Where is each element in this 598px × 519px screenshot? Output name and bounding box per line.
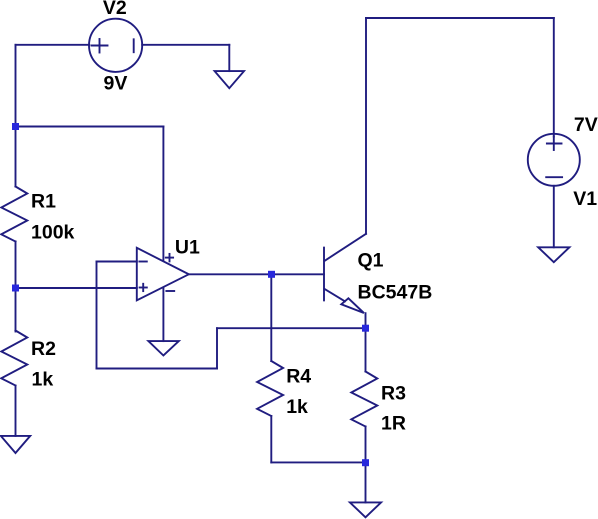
- wire V1 to ground: [553, 186, 555, 248]
- wire R4 top: [270, 274, 272, 361]
- node D junction (emitter): [362, 325, 369, 332]
- wire top rail: [366, 17, 554, 19]
- wire R3 top: [365, 328, 367, 371]
- op-amp U1: [137, 248, 189, 300]
- svg-text:V2: V2: [103, 0, 127, 19]
- wire V1 top lead: [553, 18, 555, 137]
- wire V2 to ground: [228, 45, 230, 71]
- ground (R2): [1, 436, 30, 453]
- node E junction (R3/R4 bottom): [362, 459, 369, 466]
- svg-text:R4: R4: [286, 366, 311, 388]
- wire R1 to node B: [15, 241, 17, 331]
- svg-text:V1: V1: [573, 188, 597, 210]
- svg-text:1k: 1k: [286, 396, 308, 418]
- svg-text:1R: 1R: [381, 412, 406, 434]
- svg-text:U1: U1: [175, 237, 200, 259]
- resistor R2: [1, 331, 27, 386]
- wire node B to opamp plus input: [16, 287, 137, 289]
- wire R3 bottom: [365, 426, 367, 502]
- wire feedback bottom horizontal: [97, 368, 218, 370]
- resistor R3: [351, 372, 377, 427]
- wire R4 bottom: [270, 416, 272, 462]
- wire feedback right vertical: [216, 328, 218, 368]
- wire feedback left vertical: [96, 262, 98, 369]
- wire node A to opamp V+ horizontal: [16, 126, 164, 128]
- wire opamp output to Q1 base: [189, 273, 324, 275]
- svg-text:7V: 7V: [574, 114, 598, 136]
- ground (U1): [148, 341, 178, 355]
- resistor R4: [257, 361, 283, 416]
- wire V2 right lead: [142, 44, 229, 46]
- ground (V1): [538, 247, 569, 262]
- ground (bottom): [350, 502, 381, 517]
- voltage source V1: [528, 134, 580, 186]
- svg-text:9V: 9V: [104, 73, 128, 95]
- wire opamp minus input: [97, 261, 137, 263]
- wire collector vertical: [365, 18, 367, 234]
- wire R4 to node E: [271, 461, 365, 463]
- svg-text:BC547B: BC547B: [358, 282, 433, 304]
- voltage source V2: [89, 19, 142, 72]
- wire R2 to ground: [15, 386, 17, 436]
- wire emitter bend: [365, 313, 367, 328]
- svg-text:100k: 100k: [31, 221, 75, 243]
- wire V2 left lead: [16, 44, 90, 46]
- wire left rail top: [15, 45, 17, 187]
- resistor R1: [1, 187, 27, 242]
- svg-text:1k: 1k: [32, 369, 54, 391]
- ground (V2): [215, 71, 244, 88]
- wire opamp V- vertical: [162, 288, 164, 341]
- transistor Q1: [323, 248, 325, 301]
- svg-text:R3: R3: [381, 383, 406, 405]
- wire feedback to emitter node: [217, 327, 366, 329]
- wire opamp V+ vertical: [162, 127, 164, 261]
- svg-text:Q1: Q1: [358, 250, 384, 272]
- node B junction: [12, 285, 19, 292]
- svg-text:R2: R2: [31, 338, 56, 360]
- svg-text:R1: R1: [31, 191, 56, 213]
- node A junction: [12, 123, 19, 130]
- node C junction (base): [268, 271, 275, 278]
